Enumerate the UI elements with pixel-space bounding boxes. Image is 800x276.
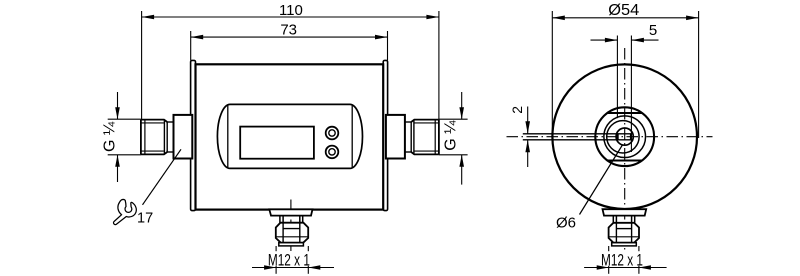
LCD window (240, 127, 314, 159)
display pill (217, 104, 362, 168)
vertical centerline (624, 48, 626, 250)
bottom connector (right view) flange (603, 209, 647, 215)
bottom connector (left view) neck (280, 216, 303, 223)
button 2 (326, 146, 339, 159)
G 1/4 dimension right (439, 92, 468, 185)
dimension diameter 54 (552, 11, 698, 138)
bottom connector (left view) centerline (290, 200, 292, 252)
fitting front circles (595, 107, 654, 166)
svg-text:73: 73 (280, 22, 297, 39)
button 1 (326, 127, 339, 140)
fitting front: hex flats chords (607, 113, 643, 161)
body main (196, 64, 384, 209)
svg-text:17: 17 (137, 210, 153, 226)
bottom connector (right view) hex nut (609, 223, 639, 243)
wrench icon (114, 200, 137, 225)
right fitting flange (386, 115, 405, 159)
left fitting neck (164, 120, 173, 155)
body left end strip (191, 60, 196, 210)
dimension 73 (191, 31, 388, 60)
horizontal centerline (507, 136, 713, 138)
left fitting thread (141, 120, 167, 155)
G 1/4 dimension left (108, 92, 141, 182)
diameter 6 leader and text (580, 145, 623, 215)
bottom connector (left view) hex nut (276, 223, 308, 243)
feature lines for dim 2 (523, 134, 631, 140)
bottom connector (left view) flange (269, 209, 312, 215)
svg-text:M12 x 1: M12 x 1 (601, 251, 643, 269)
svg-text:M12 x 1: M12 x 1 (268, 251, 310, 269)
dimension 5 (591, 36, 659, 153)
bottom connector (right view) neck (613, 216, 634, 223)
svg-text:110: 110 (279, 2, 303, 19)
right fitting neck (405, 120, 414, 155)
svg-text:2: 2 (509, 106, 525, 114)
left fitting flange (174, 115, 193, 159)
svg-text:G ¼: G ¼ (442, 120, 459, 151)
display face edges (227, 105, 229, 168)
svg-text:5: 5 (649, 22, 657, 39)
body right end strip (383, 60, 387, 210)
svg-text:Ø54: Ø54 (608, 2, 639, 19)
right fitting thread (411, 120, 439, 155)
wrench leader line (143, 149, 182, 205)
dimension 110 (142, 11, 439, 119)
svg-text:Ø6: Ø6 (556, 215, 576, 232)
sensor tip box (618, 133, 631, 140)
dimension 2 (527, 107, 529, 168)
svg-text:G ¼: G ¼ (102, 121, 119, 152)
bottom connector (left view) end cylinder (279, 243, 304, 246)
bottom connector (right view) end cylinder (612, 243, 637, 246)
main circle (552, 64, 697, 209)
